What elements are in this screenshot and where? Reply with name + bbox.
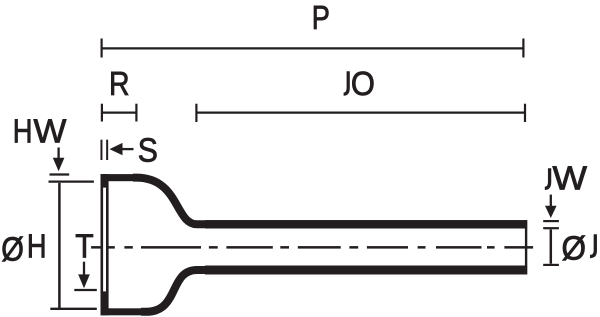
svg-text:O: O: [351, 66, 375, 103]
svg-text:H: H: [27, 228, 47, 265]
svg-text:W: W: [34, 113, 67, 150]
svg-text:Ø: Ø: [1, 231, 24, 268]
svg-text:S: S: [138, 133, 158, 170]
svg-text:H: H: [13, 113, 33, 150]
svg-text:R: R: [109, 66, 130, 103]
svg-text:T: T: [75, 229, 93, 266]
svg-text:W: W: [553, 161, 588, 198]
svg-text:Ø: Ø: [562, 231, 587, 268]
svg-text:P: P: [312, 0, 330, 37]
